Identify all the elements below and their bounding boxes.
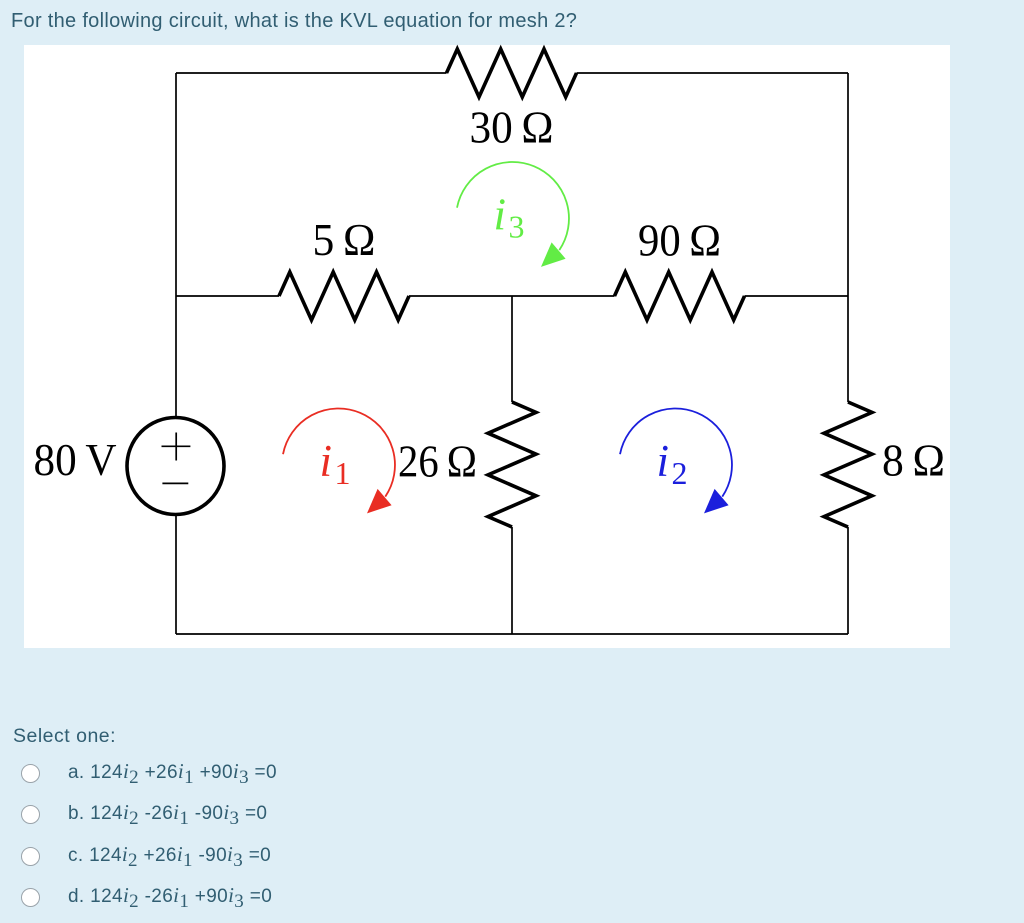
svg-text:80 V: 80 V [34,435,117,485]
voltage source 80V circle [127,418,224,515]
wire top rail [176,72,848,74]
question title [11,11,577,31]
mesh current arrowhead i3 [541,242,566,267]
radio button option c [21,847,40,866]
option b text [68,802,267,823]
resistor 26ohm [488,402,536,527]
mesh current arrow i2 (blue arc) [620,409,732,497]
option c text [68,844,271,865]
svg-text:8 Ω: 8 Ω [882,436,945,486]
option a text [68,761,277,782]
svg-text:i2: i2 [657,436,688,491]
radio button option b [21,805,40,824]
wire left branch lower [175,515,177,635]
resistor 8ohm [824,402,872,527]
mesh current arrowhead i2 [704,489,729,514]
white circuit panel [24,45,950,648]
svg-text:90 Ω: 90 Ω [638,216,721,266]
mesh current arrowhead i1 [367,489,392,514]
radio button option d [21,888,40,907]
resistor 5ohm [279,272,409,320]
mesh current arrow i3 (green arc) [457,162,569,250]
wire middle branch [511,296,513,634]
voltage source plus sign [162,433,191,461]
svg-text:30 Ω: 30 Ω [470,103,554,153]
wire middle rail [176,295,848,297]
select one prompt [13,727,116,747]
svg-text:5 Ω: 5 Ω [313,215,376,265]
svg-text:26 Ω: 26 Ω [398,437,477,487]
radio button option a [21,764,40,783]
wire right branch [847,73,849,634]
mesh current arrow i1 (red arc) [283,409,395,497]
svg-text:i1: i1 [320,436,351,491]
resistor 30ohm [447,49,577,97]
wire bottom rail [176,633,848,635]
svg-text:i3: i3 [494,190,525,245]
wire left branch upper [175,73,177,418]
voltage source minus sign [162,482,188,484]
resistor 90ohm [615,272,745,320]
option d text [68,885,272,906]
